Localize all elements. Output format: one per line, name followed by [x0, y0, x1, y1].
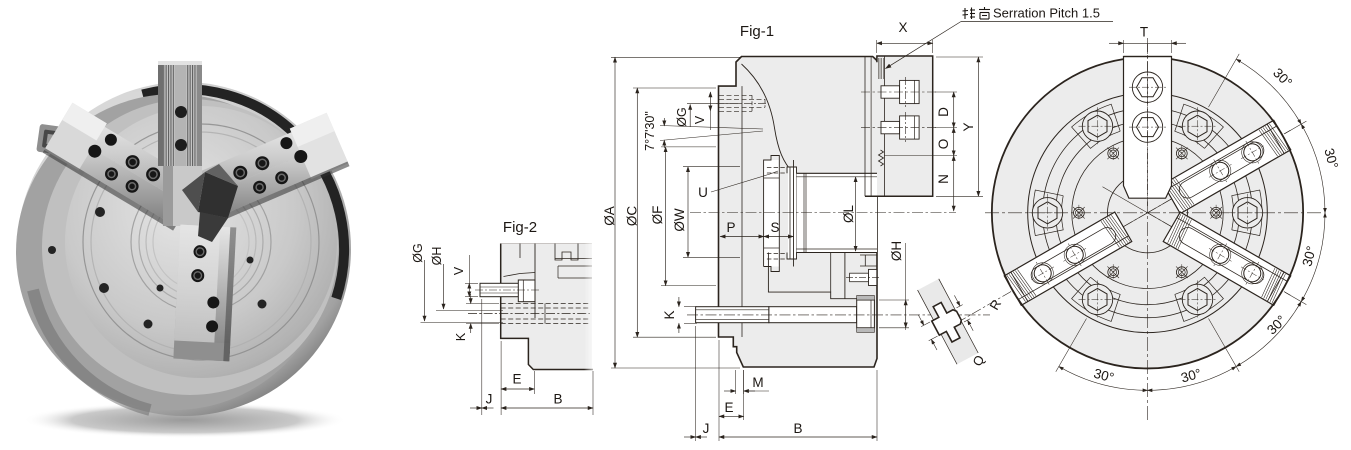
svg-text:ØW: ØW	[672, 208, 687, 232]
chuck face	[65, 106, 337, 378]
wedge key (hidden)	[767, 168, 786, 260]
svg-text:B: B	[793, 421, 802, 436]
dim K	[662, 297, 697, 333]
svg-text:ØC: ØC	[624, 206, 639, 227]
set screw 240	[1108, 267, 1119, 278]
svg-text:Fig-1: Fig-1	[740, 23, 774, 40]
taper angle 7 deg 7'30"	[643, 111, 763, 151]
dim S	[764, 220, 794, 237]
dim P	[720, 220, 764, 237]
dim OC	[624, 88, 716, 337]
svg-text:ØH: ØH	[430, 247, 444, 266]
ring r119.8	[1028, 93, 1268, 333]
svg-text:30°: 30°	[1321, 147, 1341, 171]
draw screw hole (hidden)	[468, 304, 590, 324]
svg-text:V: V	[693, 115, 707, 124]
chuck body section (gray silhouette)	[719, 57, 934, 368]
hex screw 240	[1082, 284, 1112, 314]
dim Y	[936, 57, 983, 196]
jaw axes dash-dot	[1148, 130, 1291, 213]
svg-text:Y: Y	[961, 122, 976, 131]
dim M	[724, 370, 769, 394]
PHOTO	[16, 61, 351, 438]
svg-text:N: N	[936, 174, 951, 184]
dim D	[935, 92, 957, 128]
inner boss lines	[519, 244, 521, 259]
right jaw	[190, 113, 350, 226]
DETAIL (jaw serration profile R,Q)	[905, 275, 1004, 371]
svg-text:E: E	[512, 372, 521, 387]
dim N	[936, 156, 954, 211]
hex screw 0	[1232, 198, 1262, 228]
svg-text:J: J	[703, 421, 710, 436]
dim E	[500, 341, 502, 415]
dim OL	[841, 177, 856, 251]
jaw screw at y87.2	[1132, 72, 1162, 102]
draw bolt (K)	[696, 307, 769, 323]
dim B	[719, 370, 877, 441]
shadow	[23, 402, 347, 438]
svg-text:30°: 30°	[1270, 65, 1295, 90]
dim E	[719, 340, 744, 441]
dim OG (bolt hole)	[675, 103, 740, 127]
face rings	[83, 124, 319, 360]
set screw 120	[1108, 148, 1119, 159]
svg-text:ØL: ØL	[841, 205, 856, 224]
dim OA	[602, 57, 740, 368]
dim OG	[421, 322, 504, 324]
bottom jaw	[173, 225, 236, 362]
pocket 0	[1232, 190, 1262, 236]
body outline	[501, 244, 593, 370]
hex screw 120	[1082, 111, 1112, 141]
dim U leader	[698, 171, 778, 200]
dim R	[956, 305, 962, 308]
body section (partial)	[501, 244, 592, 370]
pocket 60	[1175, 104, 1224, 148]
cylinder bore OL	[797, 173, 878, 252]
pocket 120	[1072, 104, 1121, 148]
dim V	[465, 282, 478, 284]
dim OH	[879, 241, 909, 330]
serration zigzag joint	[879, 150, 884, 166]
ring r91.9	[1056, 121, 1240, 305]
T-nut	[518, 280, 535, 302]
ring r75.7	[1072, 137, 1223, 288]
svg-text:ØH: ØH	[889, 241, 904, 261]
svg-text:V: V	[452, 266, 466, 275]
30 deg arcs	[1236, 59, 1301, 124]
set screw 180	[1074, 207, 1085, 218]
set screw 0	[1211, 207, 1222, 218]
flange/body joint line	[741, 86, 743, 337]
svg-text:K: K	[454, 332, 468, 341]
dim K	[466, 303, 499, 305]
svg-text:O: O	[936, 139, 951, 150]
dim OW	[672, 167, 740, 258]
svg-text:ØG: ØG	[675, 107, 689, 126]
dim J	[684, 326, 709, 441]
hex screw 60	[1182, 111, 1212, 141]
jaw material band	[918, 279, 979, 364]
serration teeth strip	[878, 58, 883, 79]
svg-text:T: T	[1140, 25, 1148, 40]
svg-text:X: X	[898, 20, 907, 35]
lower mechanism blocks	[768, 253, 857, 299]
master jaw guide lines	[864, 57, 866, 197]
svg-text:30°: 30°	[1299, 244, 1319, 268]
svg-text:ØF: ØF	[650, 206, 665, 225]
svg-text:D: D	[936, 107, 951, 117]
piston plate	[788, 167, 797, 260]
center wedges	[182, 164, 238, 242]
hex screw 180	[1032, 198, 1062, 228]
serration callout	[886, 6, 1114, 69]
svg-text:E: E	[724, 400, 733, 415]
pocket 240	[1072, 277, 1121, 321]
FIG2	[411, 219, 598, 415]
body outline	[719, 57, 878, 368]
pocket 300	[1175, 277, 1224, 321]
top jaw serrated block	[158, 61, 202, 226]
svg-text:ØG: ØG	[411, 243, 425, 262]
T profile	[926, 298, 968, 346]
left rim detail block	[36, 124, 74, 156]
svg-text:Q: Q	[969, 353, 987, 369]
svg-text:B: B	[553, 392, 562, 407]
casting S-curve profile	[742, 64, 794, 174]
fade edge	[584, 240, 598, 373]
dim OF	[650, 147, 716, 286]
chuck body	[17, 82, 351, 416]
bolt centerline	[687, 314, 990, 316]
dim O	[884, 128, 957, 156]
hex screw 300	[1182, 284, 1212, 314]
jaw screw axes	[905, 77, 907, 107]
draw stud pin	[480, 283, 535, 296]
upper-left jaw	[43, 103, 201, 231]
set screw 300	[1176, 267, 1187, 278]
hanzi CHI	[979, 7, 990, 19]
ring r40	[1108, 173, 1188, 253]
svg-text:R: R	[987, 297, 1005, 313]
dim V	[693, 92, 711, 130]
dim X	[877, 20, 933, 53]
dim T	[1123, 40, 1125, 53]
serrated jaw bar 30	[1163, 120, 1291, 213]
svg-text:U: U	[698, 185, 708, 200]
top jaw block	[865, 56, 933, 196]
svg-text:P: P	[726, 220, 735, 235]
face holes	[48, 207, 267, 356]
serrated jaw bar 330	[1163, 212, 1291, 305]
svg-text:J: J	[486, 392, 493, 407]
FIG1 DIMENSIONS	[602, 6, 1113, 442]
serrated jaw bar 210	[1004, 212, 1132, 305]
svg-text:30°: 30°	[1264, 312, 1289, 337]
outer rim	[992, 59, 1303, 368]
wedge plunger (center)	[764, 160, 780, 267]
jaw screw 1	[861, 80, 938, 103]
chuck axis centerline	[690, 212, 956, 214]
svg-text:S: S	[770, 220, 779, 235]
hanzi PAI	[963, 8, 976, 20]
pocket 180	[1033, 190, 1063, 236]
FIG1	[687, 23, 990, 367]
dim J	[481, 299, 483, 415]
wedge parts (top right)	[555, 244, 578, 261]
svg-text:Serration Pitch 1.5: Serration Pitch 1.5	[993, 6, 1100, 21]
jaw screw at y127.1	[1132, 112, 1162, 142]
svg-text:M: M	[752, 375, 763, 390]
svg-text:K: K	[662, 310, 677, 319]
chuck body face	[992, 57, 1303, 368]
svg-text:7°7'30": 7°7'30"	[643, 111, 657, 151]
dim OH	[436, 310, 503, 312]
ring r104.9	[1043, 108, 1253, 318]
dim B	[592, 371, 594, 415]
set screw 60	[1176, 148, 1187, 159]
svg-text:ØA: ØA	[602, 206, 617, 226]
mounting bolt hole (hidden, top)	[716, 95, 768, 111]
svg-text:Fig-2: Fig-2	[503, 219, 537, 236]
dim Q	[921, 322, 930, 327]
jaw screw 2	[861, 116, 938, 139]
top jaw (vertical, T)	[1124, 57, 1172, 199]
jaw return spring screw (right face)	[850, 273, 869, 282]
radial ticks	[1209, 54, 1240, 107]
centerlines	[985, 212, 1322, 214]
center mark	[1103, 187, 1193, 239]
FRONT VIEW	[938, 25, 1341, 421]
